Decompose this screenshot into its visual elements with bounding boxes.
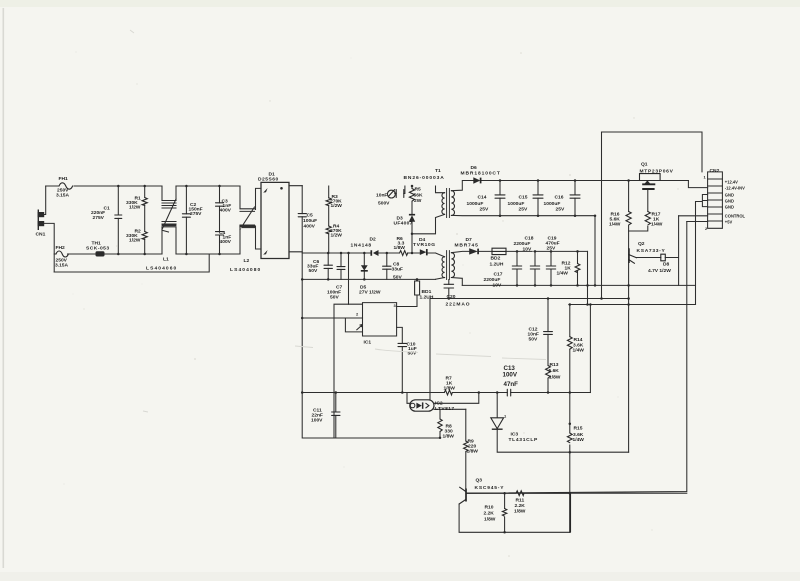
svg-text:CN2: CN2 [710, 168, 720, 174]
svg-text:400V: 400V [220, 239, 232, 245]
svg-text:R11: R11 [516, 498, 525, 504]
svg-text:LS404080: LS404080 [230, 267, 261, 273]
svg-text:1.2UH: 1.2UH [420, 294, 434, 300]
svg-text:D6: D6 [471, 165, 478, 171]
svg-text:MTP23P06V: MTP23P06V [640, 169, 674, 175]
svg-text:1/8W: 1/8W [443, 433, 455, 439]
svg-text:C14: C14 [478, 195, 487, 201]
svg-text:2.2K: 2.2K [515, 503, 526, 509]
svg-text:BD2: BD2 [491, 256, 501, 262]
svg-text:1/8W: 1/8W [549, 375, 561, 381]
svg-text:FH2: FH2 [56, 245, 66, 251]
svg-text:1/8W: 1/8W [467, 449, 479, 455]
svg-text:TL431CLP: TL431CLP [509, 437, 539, 443]
svg-text:25V: 25V [519, 207, 528, 213]
svg-text:1/4W: 1/4W [651, 222, 663, 228]
svg-text:D2: D2 [370, 237, 377, 243]
svg-text:50V: 50V [309, 268, 318, 274]
svg-text:C5: C5 [307, 213, 314, 219]
svg-text:1/2W: 1/2W [331, 233, 343, 239]
svg-text:10V: 10V [523, 247, 532, 253]
svg-text:50V: 50V [408, 351, 417, 357]
svg-text:C16: C16 [555, 195, 564, 201]
svg-text:IC2: IC2 [435, 401, 443, 407]
svg-text:1/8W: 1/8W [394, 245, 406, 251]
svg-text:T1: T1 [435, 168, 441, 174]
svg-text:1/8W: 1/8W [514, 509, 526, 515]
svg-text:5.6K: 5.6K [549, 368, 560, 374]
svg-text:C17: C17 [494, 272, 503, 278]
svg-text:25V: 25V [480, 207, 489, 213]
svg-text:C18: C18 [525, 236, 534, 242]
svg-text:275V: 275V [93, 215, 105, 221]
svg-text:222MAO: 222MAO [446, 302, 471, 308]
svg-text:GND: GND [725, 199, 734, 204]
svg-text:KSA733-Y: KSA733-Y [637, 248, 666, 254]
svg-text:L2: L2 [244, 258, 250, 264]
svg-text:Q1: Q1 [641, 162, 648, 168]
svg-text:100V: 100V [311, 418, 323, 424]
svg-text:1/2W: 1/2W [129, 205, 141, 211]
svg-text:50V: 50V [330, 295, 339, 301]
svg-text:10V: 10V [493, 283, 502, 289]
svg-text:BD1: BD1 [422, 289, 432, 295]
svg-text:100uF: 100uF [303, 218, 317, 224]
svg-text:GND: GND [725, 205, 734, 210]
svg-text:2200uF: 2200uF [514, 241, 531, 247]
svg-text:50V: 50V [393, 275, 402, 281]
svg-text:D25S60: D25S60 [258, 177, 279, 183]
svg-text:FH1: FH1 [59, 176, 69, 182]
svg-text:BN26-00003A: BN26-00003A [404, 175, 445, 181]
svg-text:R5: R5 [415, 187, 422, 193]
svg-text:R14: R14 [574, 337, 583, 343]
svg-text:Q2: Q2 [638, 241, 645, 247]
svg-text:1000uF: 1000uF [467, 201, 484, 207]
svg-text:KSC945-Y: KSC945-Y [475, 485, 505, 491]
svg-text:-12.4V-INV: -12.4V-INV [725, 186, 745, 191]
svg-text:1/4W: 1/4W [609, 222, 621, 228]
svg-text:27V 1/2W: 27V 1/2W [359, 290, 381, 296]
svg-text:3.15A: 3.15A [55, 263, 69, 269]
svg-text:SCK-053: SCK-053 [86, 246, 110, 252]
svg-text:1000uF: 1000uF [544, 201, 561, 207]
svg-text:+5V: +5V [725, 220, 733, 225]
svg-text:CONTROL: CONTROL [725, 214, 746, 219]
svg-text:1/8W: 1/8W [484, 517, 496, 523]
svg-text:1/4W: 1/4W [557, 271, 569, 277]
svg-text:MBR745: MBR745 [455, 243, 479, 249]
svg-text:2.2K: 2.2K [484, 511, 495, 517]
svg-text:L1: L1 [163, 257, 169, 263]
svg-text:D7: D7 [466, 237, 473, 243]
svg-text:400V: 400V [220, 208, 232, 214]
svg-text:33uF: 33uF [392, 267, 403, 273]
svg-text:400V: 400V [304, 224, 316, 230]
svg-text:50V: 50V [529, 337, 538, 343]
svg-text:4.7V 1/2W: 4.7V 1/2W [648, 268, 671, 274]
svg-text:2W: 2W [414, 198, 422, 204]
svg-text:C15: C15 [519, 195, 528, 201]
svg-text:CN1: CN1 [36, 232, 46, 238]
svg-text:25V: 25V [547, 246, 556, 252]
svg-text:LS404060: LS404060 [146, 266, 177, 272]
svg-text:C20: C20 [447, 294, 456, 300]
svg-text:56K: 56K [414, 193, 423, 199]
svg-text:IC1: IC1 [364, 340, 372, 346]
svg-text:MBR18100CT: MBR18100CT [461, 171, 501, 177]
svg-text:LTV817: LTV817 [435, 406, 454, 412]
svg-text:R10: R10 [485, 505, 494, 511]
svg-text:3.15A: 3.15A [56, 193, 70, 199]
svg-text:+12.4V: +12.4V [725, 180, 738, 185]
svg-text:1/4W: 1/4W [573, 437, 585, 443]
svg-text:1/8W: 1/8W [444, 386, 456, 392]
svg-text:100V: 100V [503, 372, 518, 379]
svg-text:D8: D8 [663, 262, 670, 268]
svg-text:UF4007: UF4007 [394, 221, 413, 227]
svg-text:10nF: 10nF [376, 193, 387, 199]
svg-text:1/2W: 1/2W [129, 238, 141, 244]
svg-text:1000uF: 1000uF [508, 201, 525, 207]
svg-text:GND: GND [725, 193, 734, 198]
svg-text:275V: 275V [190, 211, 202, 217]
svg-text:1/4W: 1/4W [573, 348, 585, 354]
svg-text:25V: 25V [556, 207, 565, 213]
svg-text:IC3: IC3 [511, 432, 519, 438]
svg-text:500V: 500V [378, 201, 390, 207]
svg-text:1/2W: 1/2W [331, 203, 343, 209]
svg-text:TVR10G: TVR10G [413, 242, 436, 248]
svg-text:47nF: 47nF [504, 381, 519, 388]
svg-text:R13: R13 [550, 362, 559, 368]
svg-text:1N4148: 1N4148 [351, 243, 372, 249]
svg-text:2200uF: 2200uF [484, 277, 501, 283]
svg-text:R15: R15 [574, 426, 583, 432]
svg-text:1.2UH: 1.2UH [490, 262, 504, 268]
svg-text:Q3: Q3 [476, 478, 483, 484]
